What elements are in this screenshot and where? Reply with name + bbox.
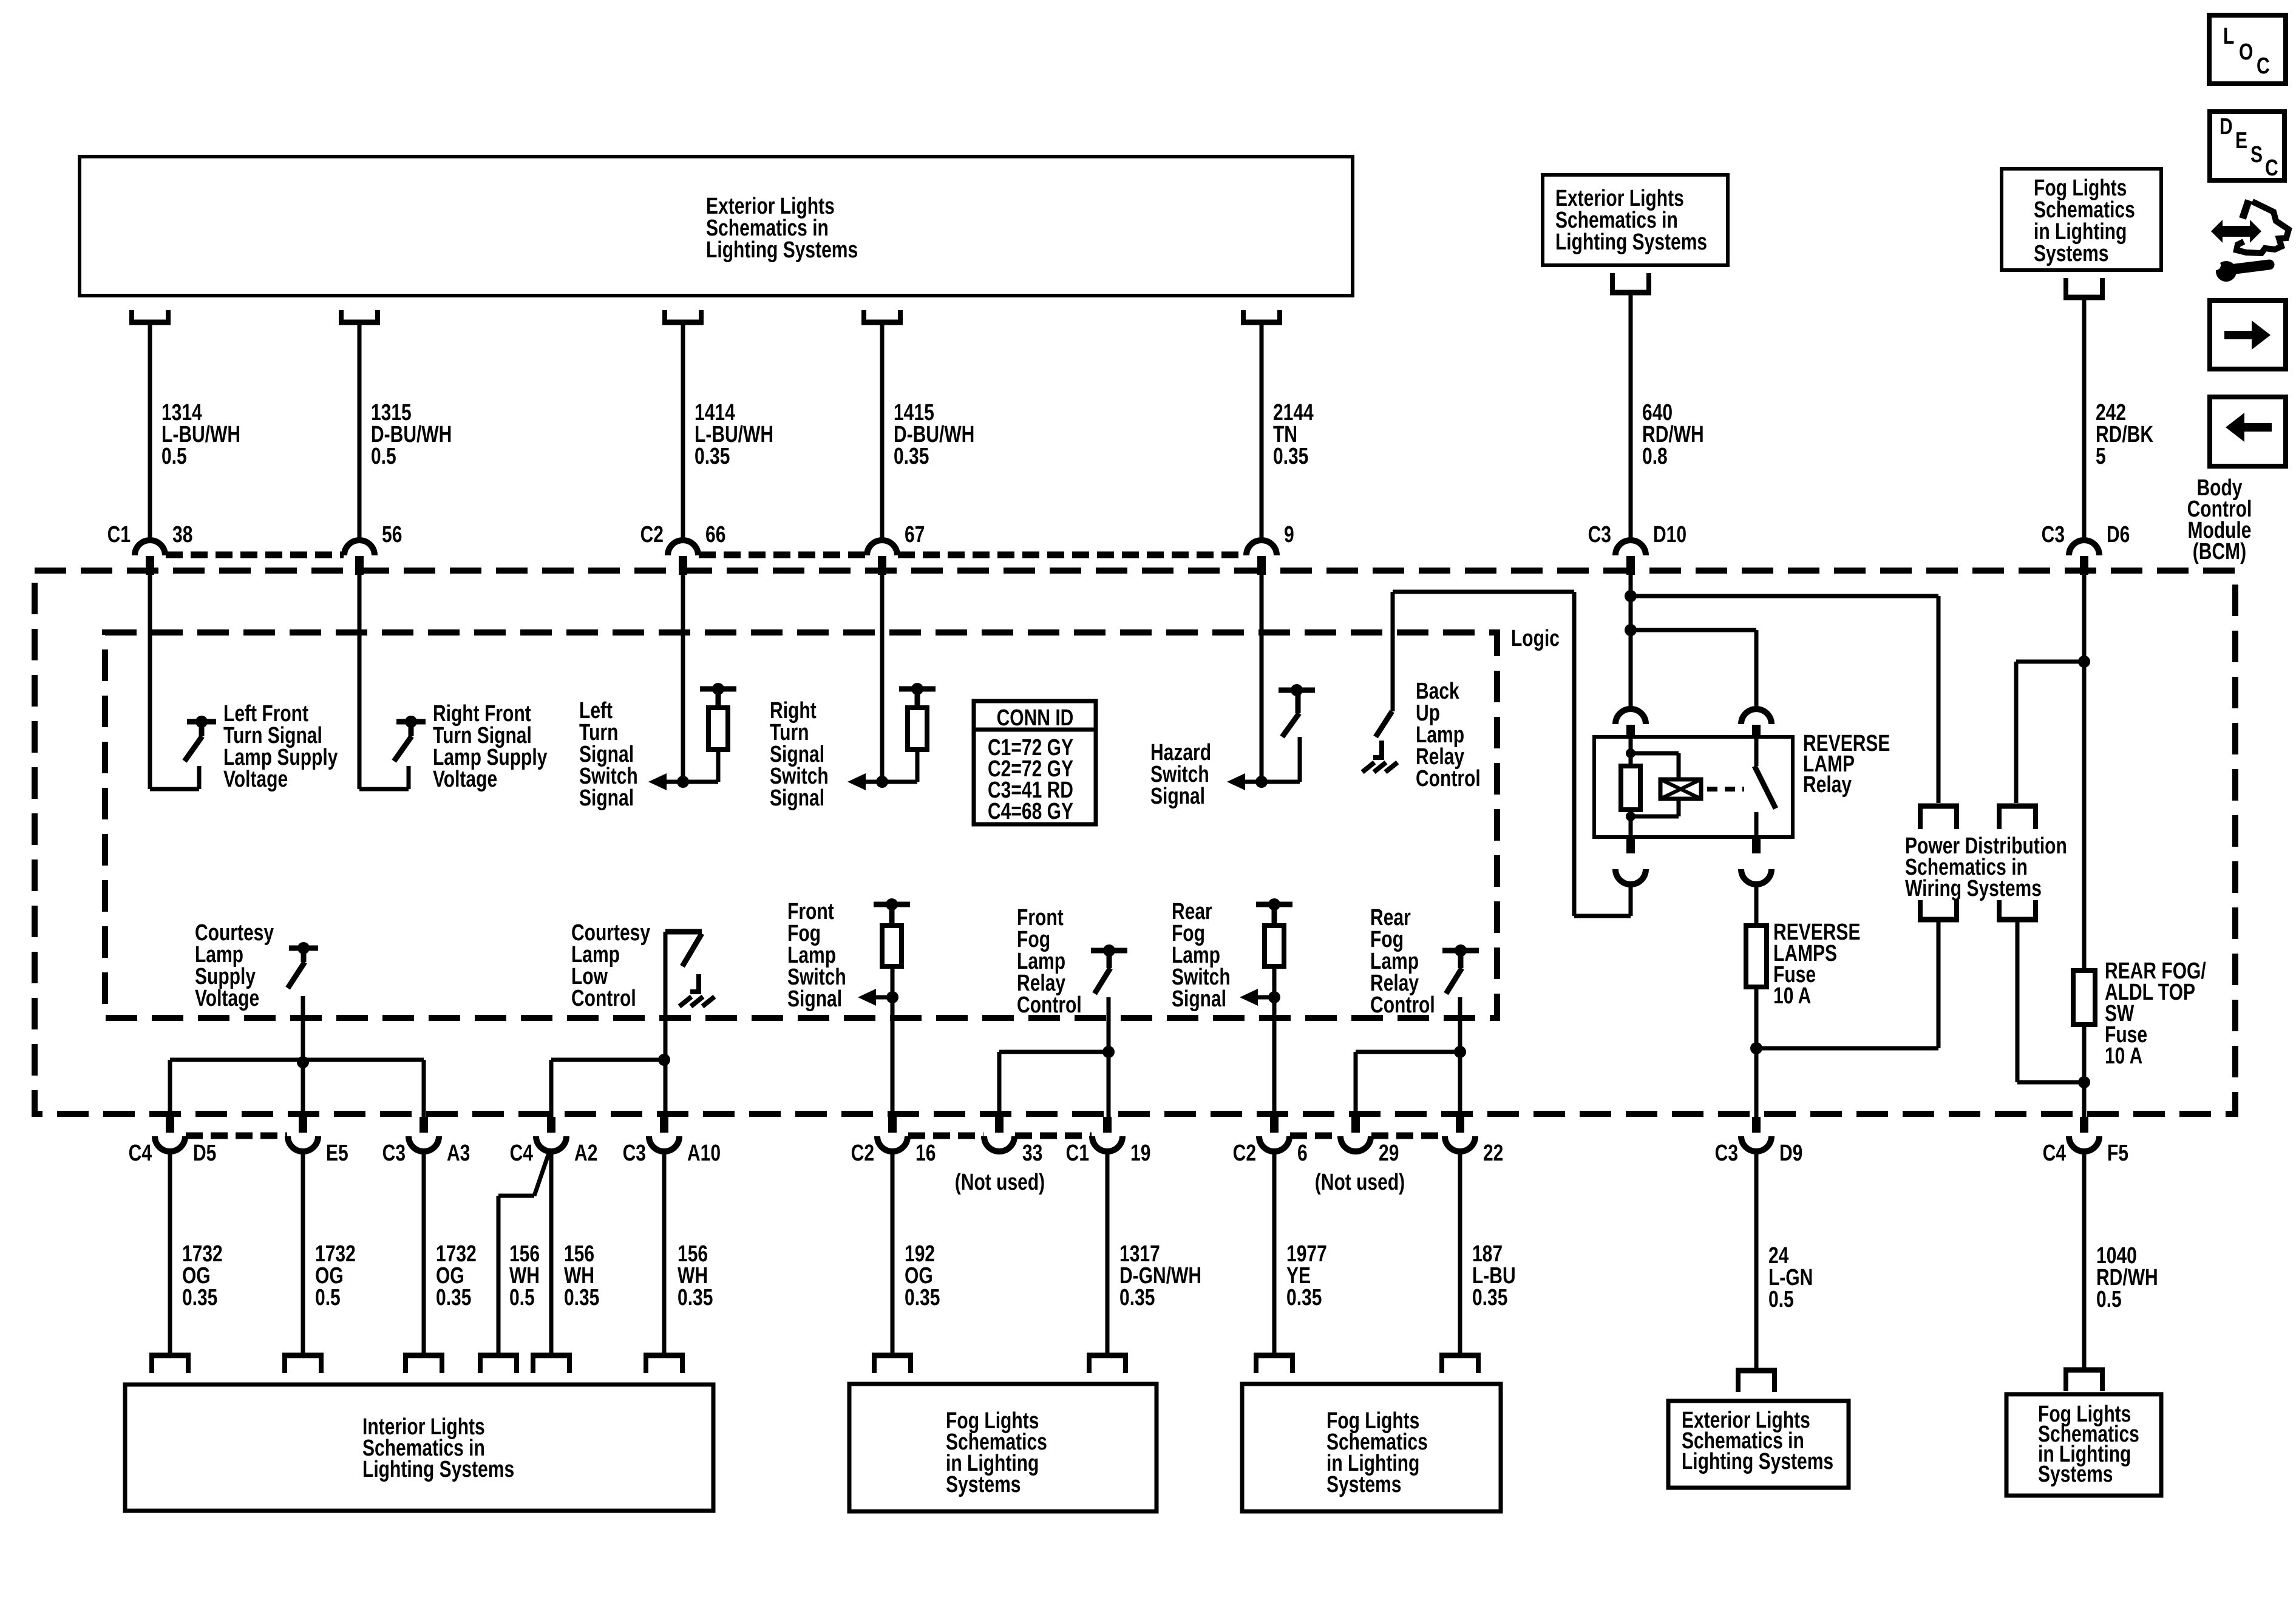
svg-text:(Not used): (Not used) bbox=[955, 1170, 1045, 1195]
svg-text:5: 5 bbox=[2096, 444, 2106, 469]
wire w2 inside BCM bbox=[358, 575, 362, 789]
svg-text:C3: C3 bbox=[382, 1141, 406, 1166]
bracket connector above box (x=821) bbox=[478, 1355, 519, 1373]
bracket: Power Distribution upper left bbox=[1918, 806, 1959, 829]
wire 1732 OG 0.35 (A3) bbox=[424, 1151, 477, 1355]
connector C4 F5 at BCM bottom bbox=[2043, 1117, 2128, 1166]
connector 33 at BCM bottom bbox=[984, 1117, 1042, 1166]
connector 22 at BCM bottom bbox=[1445, 1117, 1503, 1166]
switch+ground: Back Up Lamp Relay Control bbox=[1362, 592, 1481, 792]
svg-text:0.35: 0.35 bbox=[894, 444, 929, 469]
bracket connector above Exterior box (D9) bbox=[1736, 1371, 1777, 1392]
svg-text:C2: C2 bbox=[851, 1141, 874, 1166]
wire 24 L-GN 0.5 (D9) bbox=[1756, 1151, 1813, 1371]
svg-text:C2: C2 bbox=[640, 522, 664, 547]
svg-text:(BCM): (BCM) bbox=[2193, 539, 2246, 564]
wire: courtesy low control branch to A2 bbox=[551, 1054, 670, 1117]
svg-text:0.5: 0.5 bbox=[509, 1285, 535, 1310]
box: Fog Lights Schematics in Lighting Systems (bottom left) bbox=[849, 1384, 1156, 1511]
wire: logic to reverse lamp relay coil (low side) bbox=[1393, 592, 1631, 916]
svg-text:C4=68 GY: C4=68 GY bbox=[988, 799, 1073, 824]
switch+ground: Courtesy Lamp Low Control bbox=[571, 920, 715, 1117]
label (Not used) under 29 bbox=[1315, 1170, 1405, 1195]
bracket connector above box (x=908) bbox=[531, 1355, 572, 1373]
svg-text:Control: Control bbox=[571, 986, 636, 1011]
svg-text:C3: C3 bbox=[1715, 1141, 1738, 1166]
dotted link 29-22 bbox=[1371, 1133, 1444, 1139]
svg-text:0.35: 0.35 bbox=[564, 1285, 599, 1310]
svg-text:Lighting Systems: Lighting Systems bbox=[1682, 1449, 1833, 1474]
wire 2144 TN 0.35 (upper segment + label) bbox=[1262, 325, 1314, 541]
connector 9 at BCM top bbox=[1246, 522, 1294, 575]
svg-text:C1: C1 bbox=[1066, 1141, 1089, 1166]
resistor+arrow: Right Turn Signal Switch Signal bbox=[770, 683, 936, 811]
bracket connector above box (x=1824) bbox=[1087, 1355, 1128, 1373]
svg-text:Voltage: Voltage bbox=[195, 986, 259, 1011]
svg-text:O: O bbox=[2239, 39, 2253, 65]
switch: Left Front Turn Signal Lamp Supply Voltage bbox=[150, 701, 338, 792]
wire 1317 D-GN/WH 0.35 (19) bbox=[1107, 1151, 1201, 1355]
wire 1315 D-BU/WH 0.5 (upper segment + label) bbox=[359, 325, 452, 541]
svg-text:C: C bbox=[2265, 155, 2278, 181]
svg-text:Logic: Logic bbox=[1511, 626, 1560, 651]
dotted link 67-9 bbox=[898, 552, 1246, 558]
svg-text:10 A: 10 A bbox=[2105, 1043, 2142, 1069]
connector E5 at BCM bottom bbox=[288, 1117, 348, 1166]
BCM dashed boundary box bbox=[35, 571, 2235, 1114]
svg-text:Voltage: Voltage bbox=[223, 767, 288, 792]
svg-text:0.35: 0.35 bbox=[1286, 1285, 1322, 1310]
svg-text:Systems: Systems bbox=[946, 1472, 1021, 1497]
connector C2 16 at BCM bottom bbox=[851, 1117, 936, 1166]
wire 640 RD/WH 0.8 (upper segment + label) bbox=[1631, 295, 1704, 541]
svg-text:0.35: 0.35 bbox=[1119, 1285, 1155, 1310]
svg-text:C4: C4 bbox=[129, 1141, 152, 1166]
svg-text:A10: A10 bbox=[687, 1141, 721, 1166]
svg-text:A3: A3 bbox=[447, 1141, 470, 1166]
bracket connector w5 bbox=[1241, 310, 1282, 322]
dotted link 33-19 bbox=[1015, 1133, 1092, 1139]
wire w5 inside BCM bbox=[1260, 575, 1264, 782]
wire: relay feed to Power Distribution bracket 1 bbox=[1631, 596, 1938, 803]
bracket connector w6 bbox=[1610, 273, 1651, 293]
bracket connector w7 bbox=[2063, 278, 2105, 297]
wire 156 WH 0.35 (A10) bbox=[664, 1151, 713, 1355]
wire: 640 RD/WH into relay coil high side bbox=[1625, 575, 1637, 710]
svg-text:0.35: 0.35 bbox=[436, 1285, 471, 1310]
svg-text:Systems: Systems bbox=[1326, 1472, 1401, 1497]
svg-text:D6: D6 bbox=[2107, 522, 2130, 547]
wire 1314 L-BU/WH 0.5 (upper segment + label) bbox=[150, 325, 240, 541]
svg-text:67: 67 bbox=[905, 522, 925, 547]
label (Not used) under 33 bbox=[955, 1170, 1045, 1195]
svg-text:D10: D10 bbox=[1653, 522, 1686, 547]
svg-text:Relay: Relay bbox=[1803, 772, 1852, 798]
svg-text:Voltage: Voltage bbox=[433, 767, 497, 792]
icon box: left arrow bbox=[2210, 397, 2286, 466]
svg-text:9: 9 bbox=[1284, 522, 1294, 547]
svg-text:S: S bbox=[2250, 142, 2263, 168]
svg-text:Lighting Systems: Lighting Systems bbox=[1555, 229, 1707, 255]
label Logic bbox=[1511, 626, 1560, 651]
resistor+arrow: Left Turn Signal Switch Signal bbox=[579, 683, 736, 811]
wire 1977 YE 0.35 (6) bbox=[1274, 1151, 1327, 1355]
resistor+arrow: Front Fog Lamp Switch Signal bbox=[787, 898, 910, 1117]
connector 29 at BCM bottom bbox=[1340, 1117, 1399, 1166]
dotted link D5-E5 bbox=[186, 1133, 287, 1139]
svg-text:19: 19 bbox=[1130, 1141, 1150, 1166]
connector C1 19 at BCM bottom bbox=[1066, 1117, 1151, 1166]
svg-text:Signal: Signal bbox=[1172, 986, 1226, 1012]
svg-text:CONN ID: CONN ID bbox=[997, 705, 1074, 731]
connector C3 D9 at BCM bottom bbox=[1715, 1117, 1803, 1166]
connector C2 6 at BCM bottom bbox=[1233, 1117, 1308, 1166]
bracket connector above box (x=2099) bbox=[1254, 1355, 1295, 1373]
svg-text:0.5: 0.5 bbox=[371, 444, 396, 469]
box: Fog Lights Schematics in Lighting Systems (top) bbox=[2002, 169, 2161, 270]
wire 192 OG 0.35 (16) bbox=[892, 1151, 940, 1355]
wire w1 inside BCM bbox=[148, 575, 152, 789]
box: Interior Lights Schematics in Lighting Systems bbox=[125, 1385, 713, 1511]
wire: fuse feed from Power Distribution bracket 1 lower bbox=[1756, 922, 1938, 1048]
svg-text:Control: Control bbox=[1416, 766, 1481, 792]
svg-text:Control: Control bbox=[1370, 992, 1435, 1018]
svg-text:0.8: 0.8 bbox=[1642, 444, 1668, 469]
icon box: DESC bbox=[2210, 112, 2284, 181]
bracket connector above box (x=499) bbox=[282, 1355, 324, 1373]
resistor+arrow: Rear Fog Lamp Switch Signal bbox=[1172, 898, 1292, 1117]
bracket connector w2 bbox=[339, 310, 380, 322]
wire: courtesy supply distribution to D5/E5/A3 bbox=[170, 1056, 424, 1117]
svg-text:0.35: 0.35 bbox=[695, 444, 730, 469]
bracket connector w1 bbox=[129, 310, 171, 322]
svg-text:C3: C3 bbox=[2042, 522, 2065, 547]
connector C3 A3 at BCM bottom bbox=[382, 1117, 470, 1166]
table: CONN ID C1=72 GY C2=72 GY C3=41 RD C4=68 GY bbox=[974, 701, 1096, 824]
svg-text:Control: Control bbox=[1017, 992, 1082, 1018]
bracket connector above box (x=1094) bbox=[644, 1355, 685, 1373]
box: Exterior Lights Schematics in Lighting Systems (bottom) bbox=[1668, 1401, 1849, 1488]
bracket: Power Distribution lower left bbox=[1918, 900, 1959, 920]
bracket connector above box (x=1470) bbox=[872, 1355, 913, 1373]
bracket: Power Distribution lower right bbox=[1997, 900, 2038, 920]
svg-text:0.35: 0.35 bbox=[678, 1285, 713, 1310]
wire 187 L-BU 0.35 (22) bbox=[1460, 1151, 1516, 1355]
wire 156 WH 0.35 (A2) bbox=[551, 1151, 599, 1355]
box: Exterior Lights Schematics in Lighting Systems (top right) bbox=[1543, 175, 1728, 265]
svg-text:(Not used): (Not used) bbox=[1315, 1170, 1405, 1195]
fuse: REVERSE LAMPS Fuse 10 A bbox=[1746, 884, 1860, 1117]
wire 1040 RD/WH 0.5 (F5) bbox=[2084, 1151, 2158, 1370]
fuse: REAR FOG/ALDL TOP SW Fuse 10 A bbox=[2073, 958, 2206, 1117]
svg-text:C: C bbox=[2257, 53, 2270, 79]
label: Body Control Module (BCM) bbox=[2187, 475, 2252, 564]
svg-text:33: 33 bbox=[1022, 1141, 1042, 1166]
wire 156 WH 0.5 (A2 diagonal) bbox=[498, 1150, 550, 1355]
svg-text:Lighting Systems: Lighting Systems bbox=[362, 1457, 514, 1482]
connector C4 D5 at BCM bottom bbox=[129, 1117, 217, 1166]
switch: Rear Fog Lamp Relay Control bbox=[1356, 905, 1479, 1117]
svg-text:E5: E5 bbox=[326, 1141, 348, 1166]
wire: 242 RD/BK to REAR FOG fuse bbox=[2078, 575, 2090, 971]
connector C2 66 at BCM top bbox=[640, 522, 726, 575]
svg-text:66: 66 bbox=[705, 522, 725, 547]
svg-text:16: 16 bbox=[915, 1141, 936, 1166]
switch+arrow: Hazard Switch Signal bbox=[1150, 684, 1315, 809]
Logic dashed boundary box bbox=[105, 632, 1497, 1018]
svg-text:0.35: 0.35 bbox=[905, 1285, 940, 1310]
label: Power Distribution Schematics in Wiring Systems bbox=[1905, 833, 2067, 901]
svg-text:L: L bbox=[2223, 24, 2234, 49]
wire w3 inside BCM bbox=[681, 575, 685, 782]
svg-text:29: 29 bbox=[1379, 1141, 1399, 1166]
connector C3 D6 at BCM top bbox=[2042, 522, 2130, 575]
connector C4 A2 at BCM bottom bbox=[510, 1117, 598, 1166]
svg-text:0.5: 0.5 bbox=[315, 1285, 341, 1310]
connector C3 D10 at BCM top bbox=[1588, 522, 1686, 575]
relay: REVERSE LAMP Relay bbox=[1594, 709, 1890, 884]
box: Fog Lights Schematics in Lighting Systems (bottom middle) bbox=[1242, 1384, 1501, 1511]
icon: bidirectional arrow with wrench (diagnostic) bbox=[2211, 200, 2289, 282]
svg-text:D5: D5 bbox=[193, 1141, 216, 1166]
icon box: right arrow bbox=[2210, 300, 2286, 369]
switch: Right Front Turn Signal Lamp Supply Voltage bbox=[359, 701, 547, 792]
svg-text:56: 56 bbox=[382, 522, 402, 547]
connector 56 at BCM top bbox=[344, 522, 402, 575]
box: Exterior Lights Schematics in Lighting Systems (top left) bbox=[80, 157, 1353, 296]
svg-text:C3: C3 bbox=[1588, 522, 1611, 547]
bracket connector above Fog box (F5) bbox=[2063, 1370, 2105, 1391]
svg-text:C2: C2 bbox=[1233, 1141, 1256, 1166]
svg-text:Wiring Systems: Wiring Systems bbox=[1905, 876, 2042, 901]
svg-text:C4: C4 bbox=[510, 1141, 533, 1166]
wire 1414 L-BU/WH 0.35 (upper segment + label) bbox=[683, 325, 773, 541]
svg-text:A2: A2 bbox=[574, 1141, 597, 1166]
svg-text:Systems: Systems bbox=[2034, 241, 2108, 266]
svg-text:Systems: Systems bbox=[2038, 1462, 2113, 1487]
bracket connector above box (x=698) bbox=[403, 1355, 444, 1373]
svg-text:Lighting Systems: Lighting Systems bbox=[706, 237, 858, 263]
bracket connector w3 bbox=[662, 310, 704, 322]
connector C3 A10 at BCM bottom bbox=[623, 1117, 721, 1166]
svg-text:Signal: Signal bbox=[787, 986, 842, 1012]
bracket connector above box (x=280) bbox=[149, 1355, 191, 1373]
switch: Courtesy Lamp Supply Voltage bbox=[195, 920, 318, 1060]
svg-text:10 A: 10 A bbox=[1773, 983, 1811, 1009]
svg-text:0.35: 0.35 bbox=[1273, 444, 1308, 469]
bracket: Power Distribution upper right bbox=[1997, 806, 2038, 829]
svg-text:Signal: Signal bbox=[770, 785, 824, 811]
wire 1732 OG 0.35 (D5) bbox=[170, 1151, 223, 1355]
svg-text:C3: C3 bbox=[623, 1141, 646, 1166]
connector 67 at BCM top bbox=[867, 522, 925, 575]
dotted link 6-29 bbox=[1290, 1133, 1340, 1139]
dotted link 66-67 bbox=[699, 552, 866, 558]
svg-text:C1: C1 bbox=[107, 522, 131, 547]
wire: Power Distribution bracket 2 lower to F5 node bbox=[2017, 922, 2084, 1082]
svg-text:D9: D9 bbox=[1779, 1141, 1802, 1166]
dotted link 16-33 bbox=[908, 1133, 983, 1139]
switch: Front Fog Lamp Relay Control bbox=[999, 905, 1127, 1117]
svg-text:0.35: 0.35 bbox=[182, 1285, 217, 1310]
icon box: LOC bbox=[2209, 15, 2286, 84]
svg-text:0.5: 0.5 bbox=[1768, 1287, 1794, 1312]
wire 242 RD/BK 5 (upper segment + label) bbox=[2084, 300, 2153, 541]
svg-text:0.35: 0.35 bbox=[1472, 1285, 1507, 1310]
svg-text:E: E bbox=[2235, 128, 2247, 154]
connector C1 38 at BCM top bbox=[107, 522, 193, 575]
svg-text:6: 6 bbox=[1297, 1141, 1308, 1166]
svg-text:0.5: 0.5 bbox=[161, 444, 187, 469]
wire: relay feed to switch pin 30 bbox=[1631, 630, 1756, 710]
wire: branch to Power Distribution bracket 2 bbox=[2016, 662, 2084, 803]
svg-text:38: 38 bbox=[172, 522, 192, 547]
bracket connector w4 bbox=[861, 310, 903, 322]
svg-text:C4: C4 bbox=[2043, 1141, 2066, 1166]
wire w4 inside BCM bbox=[880, 575, 885, 782]
svg-text:Signal: Signal bbox=[579, 785, 634, 811]
svg-text:0.5: 0.5 bbox=[2096, 1287, 2122, 1312]
dotted link 38-56 bbox=[166, 552, 344, 558]
wire 1732 OG 0.5 (E5) bbox=[303, 1151, 356, 1355]
svg-text:F5: F5 bbox=[2107, 1141, 2128, 1166]
box: Fog Lights Schematics in Lighting Systems (bottom right) bbox=[2006, 1394, 2161, 1496]
wire 1415 D-BU/WH 0.35 (upper segment + label) bbox=[882, 325, 974, 541]
svg-text:22: 22 bbox=[1483, 1141, 1503, 1166]
bracket connector above box (x=2405) bbox=[1439, 1355, 1481, 1373]
svg-text:D: D bbox=[2220, 114, 2233, 140]
svg-text:Signal: Signal bbox=[1150, 784, 1205, 809]
